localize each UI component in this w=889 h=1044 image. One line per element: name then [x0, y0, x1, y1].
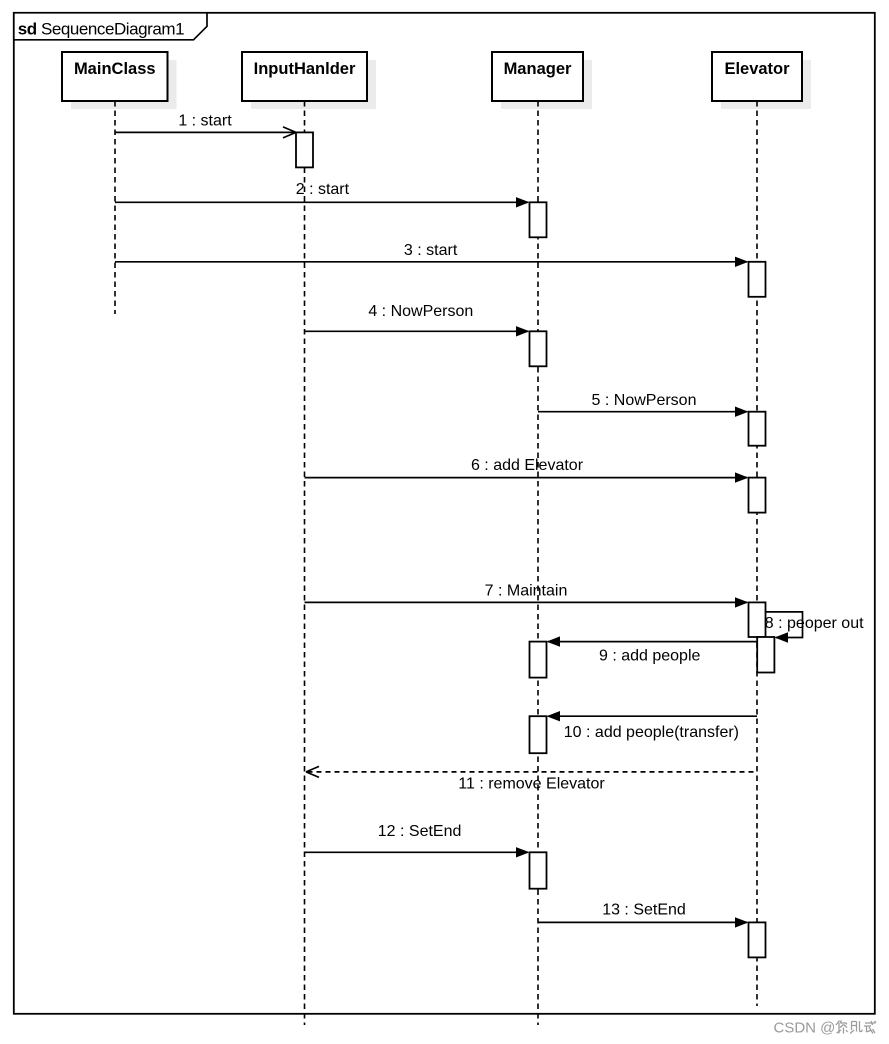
svg-text:Manager: Manager — [504, 60, 572, 78]
svg-text:7 : Maintain: 7 : Maintain — [485, 583, 568, 600]
svg-text:CSDN @: CSDN @ — [774, 1020, 836, 1037]
svg-text:12 : SetEnd: 12 : SetEnd — [378, 823, 462, 840]
svg-text:5 : NowPerson: 5 : NowPerson — [592, 392, 697, 409]
svg-text:3 : start: 3 : start — [404, 242, 458, 259]
svg-text:2 : start: 2 : start — [296, 181, 350, 198]
svg-text:4 : NowPerson: 4 : NowPerson — [368, 303, 473, 320]
svg-text:13 : SetEnd: 13 : SetEnd — [602, 902, 686, 919]
svg-text:9 : add people: 9 : add people — [599, 648, 701, 665]
svg-text:11 : remove Elevator: 11 : remove Elevator — [458, 775, 605, 792]
svg-text:Elevator: Elevator — [724, 60, 790, 78]
svg-text:8 : peoper out: 8 : peoper out — [765, 615, 864, 632]
svg-text:InputHanlder: InputHanlder — [254, 60, 356, 78]
svg-text:10 : add people(transfer): 10 : add people(transfer) — [564, 724, 739, 741]
svg-text:1 : start: 1 : start — [178, 112, 232, 129]
svg-text:6 : add Elevator: 6 : add Elevator — [471, 457, 584, 474]
svg-text:sd SequenceDiagram1: sd SequenceDiagram1 — [18, 19, 184, 38]
svg-text:MainClass: MainClass — [74, 60, 156, 78]
